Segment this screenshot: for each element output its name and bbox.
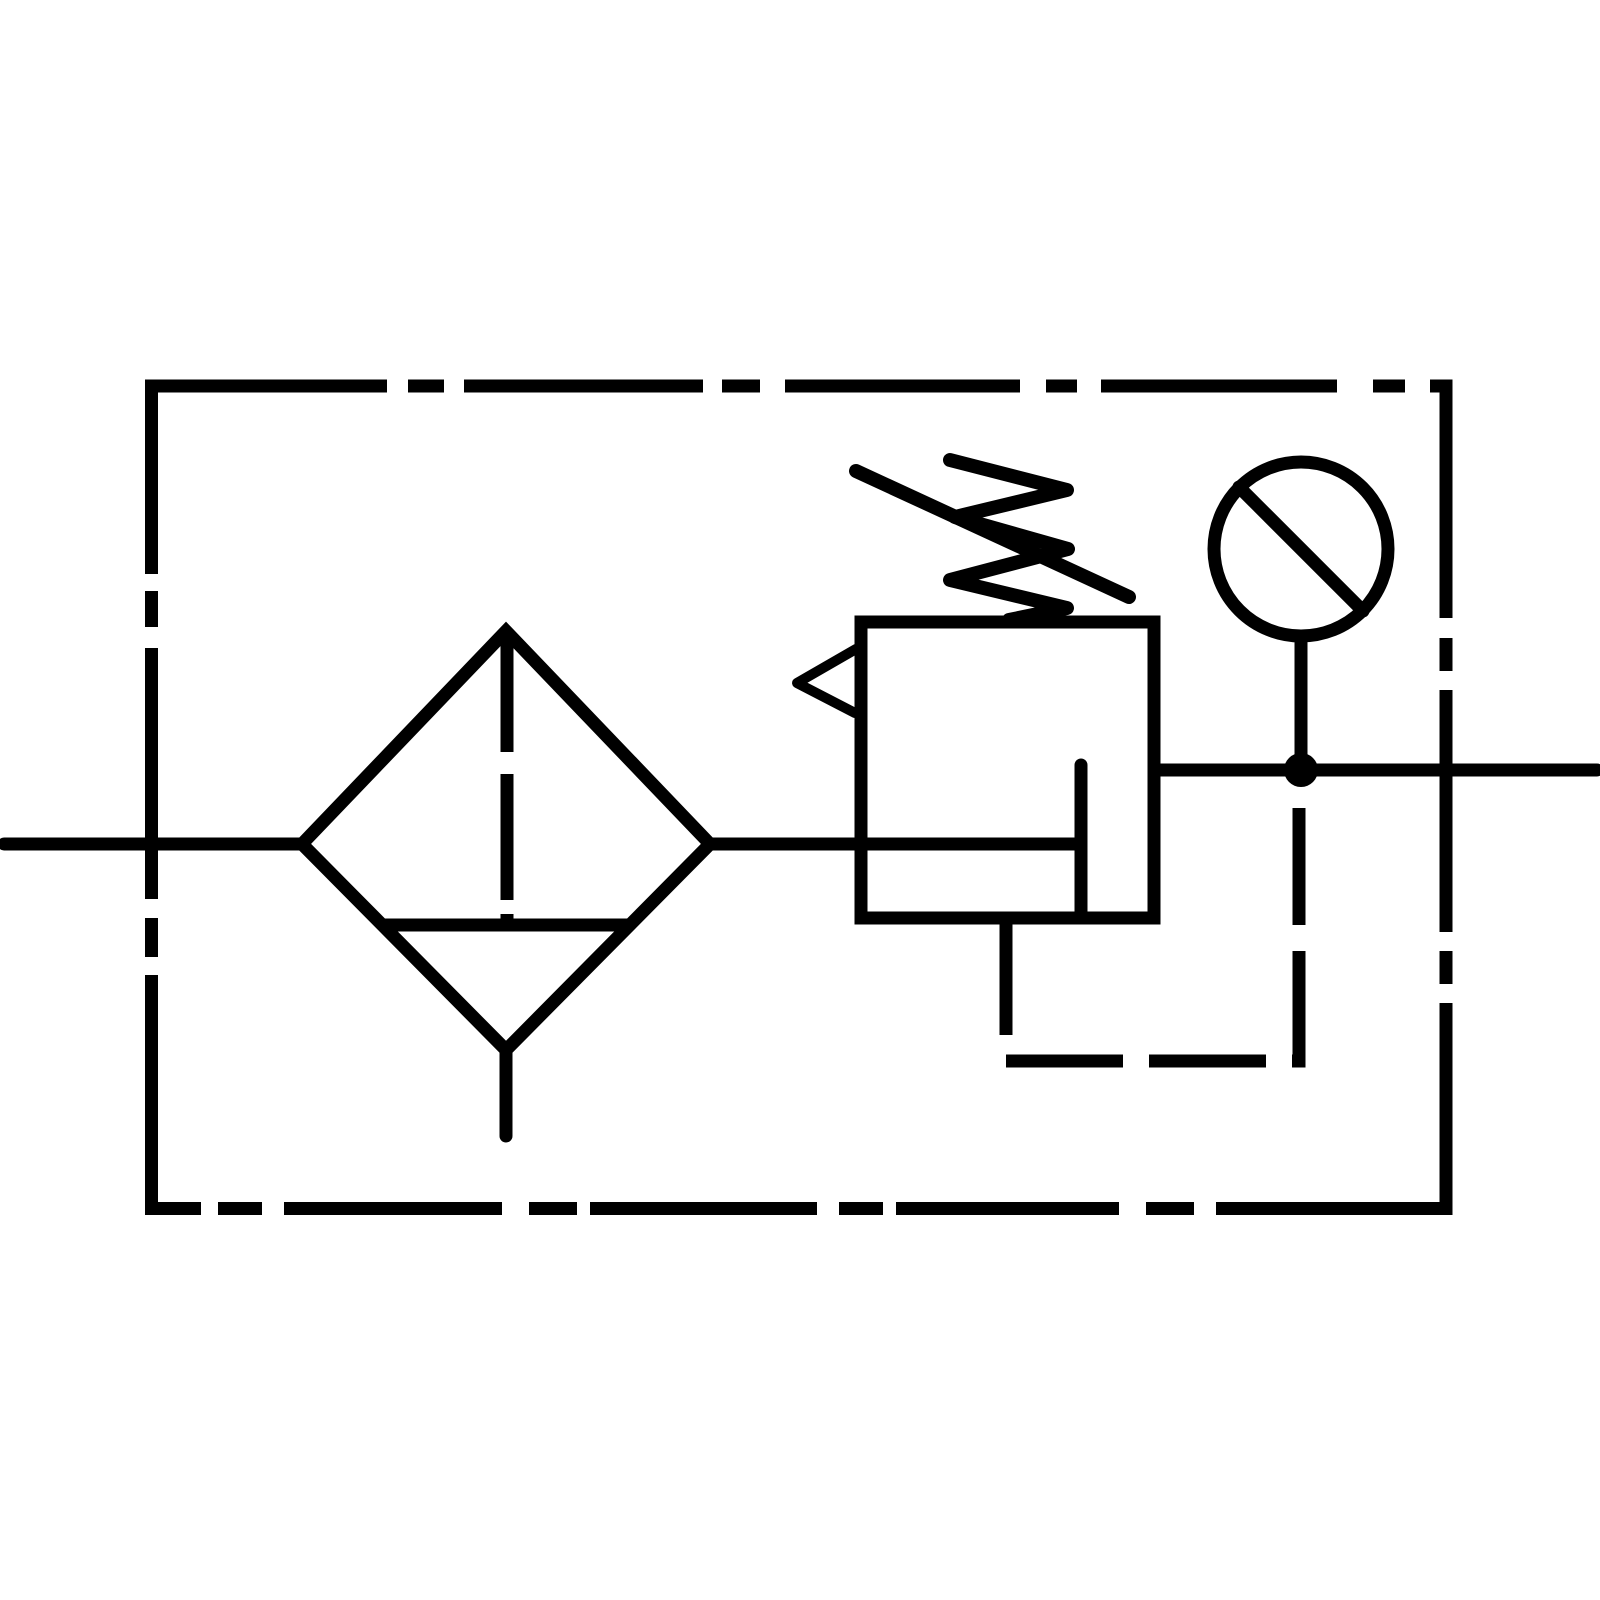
filter element dashed centre line xyxy=(501,633,514,925)
enclosure border left (dash-dot) xyxy=(145,380,158,1208)
enclosure border right (dash-dot) xyxy=(1440,386,1453,1215)
filter drain line xyxy=(500,1050,513,1136)
pressure gauge dial xyxy=(1214,462,1388,636)
enclosure border bottom (dash-dot) xyxy=(145,1202,1453,1215)
outlet wire xyxy=(1154,764,1597,777)
wire filter to regulator xyxy=(710,838,1075,851)
inlet wire xyxy=(4,838,301,851)
gauge needle diagonal xyxy=(1239,487,1363,611)
regulator body U1 xyxy=(861,622,1154,918)
regulator spring xyxy=(950,460,1068,620)
gauge stem wire xyxy=(1295,642,1308,770)
junction node xyxy=(1284,753,1318,787)
regulator relief arrow xyxy=(797,649,856,713)
condensate level line xyxy=(383,919,631,932)
regulator adjustment line xyxy=(856,471,1129,597)
regulator valve bar xyxy=(1075,765,1088,918)
enclosure border top (dash-dot) xyxy=(145,380,1453,393)
filter (diamond body) xyxy=(302,631,710,1050)
pilot line (dashed) xyxy=(1006,770,1299,1061)
